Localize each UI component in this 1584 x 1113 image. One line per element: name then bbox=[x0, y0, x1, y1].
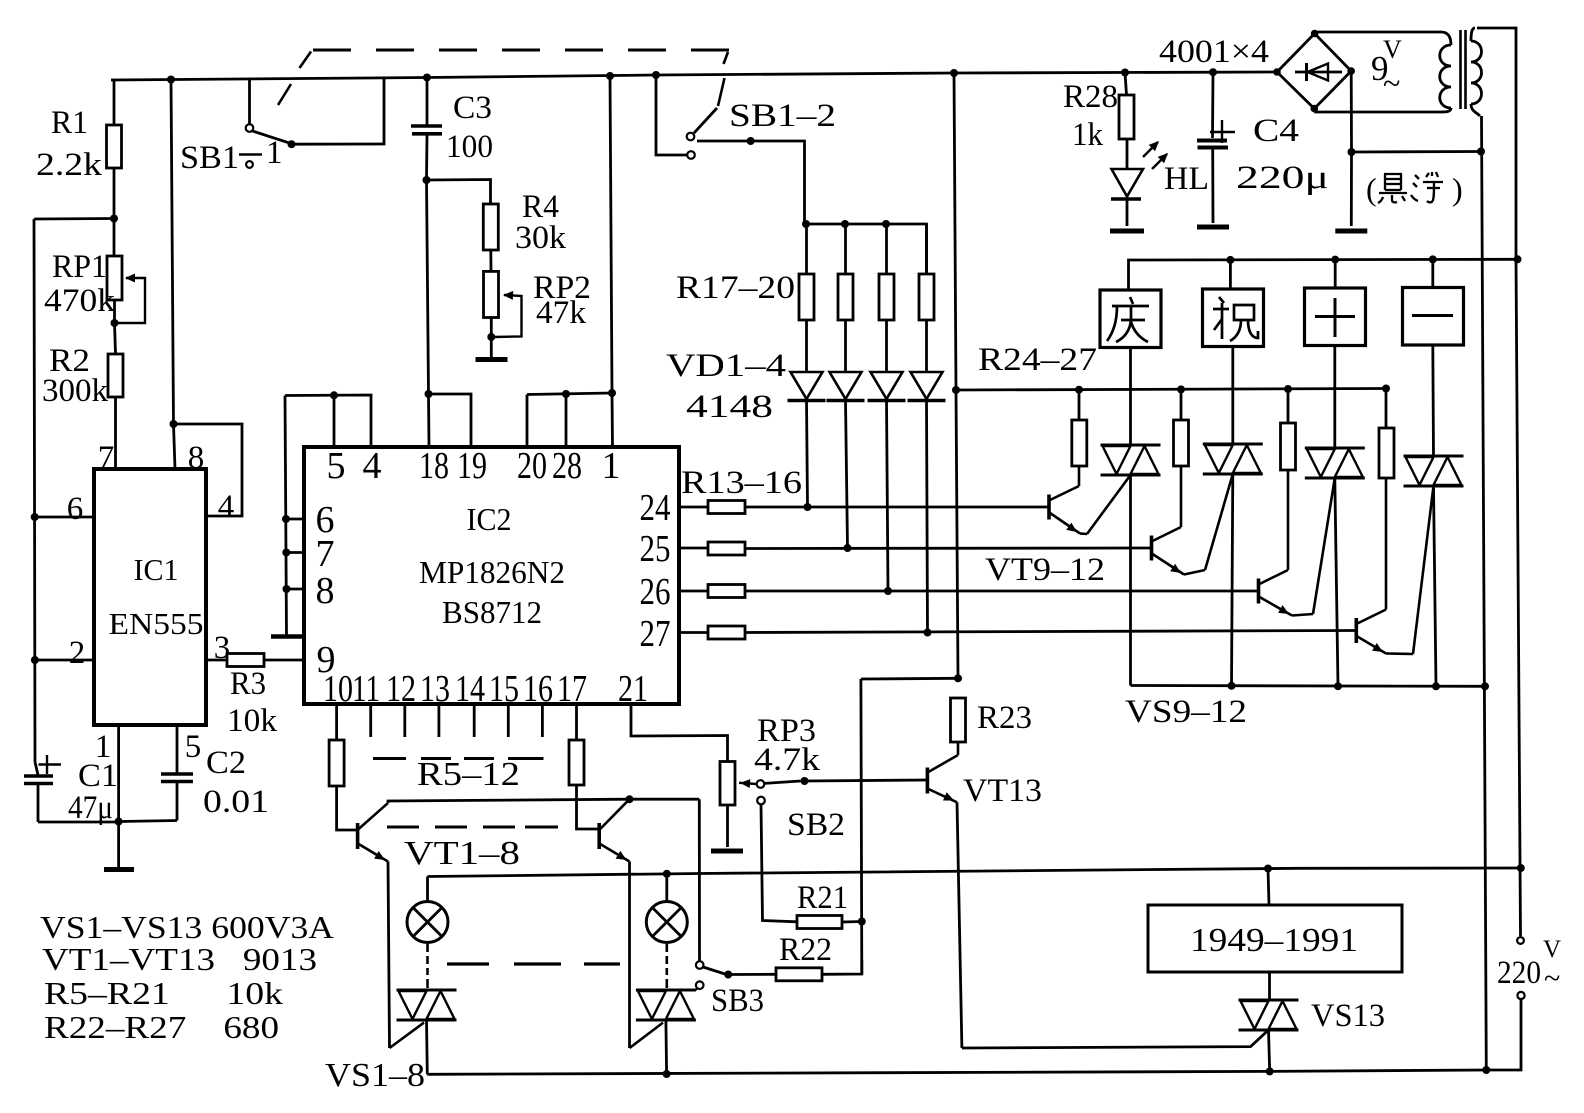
node rail-shi bbox=[1331, 256, 1339, 264]
resistor R27 bbox=[1385, 389, 1388, 429]
resistor R2 bbox=[108, 354, 123, 397]
svg-text:24: 24 bbox=[640, 487, 671, 529]
svg-text:16: 16 bbox=[523, 668, 553, 710]
gate diagonal of VS11 bbox=[1313, 478, 1335, 614]
node rail-VS11 bbox=[1334, 682, 1342, 690]
wire SB1-2 output bbox=[697, 141, 805, 224]
wire VT12 emitter to gate bbox=[1386, 652, 1413, 655]
node pin28 tee bbox=[562, 390, 570, 398]
wiper of RP2 bbox=[493, 295, 522, 337]
capacitor C2 bbox=[176, 725, 179, 773]
wire SB2 lower to R21 bbox=[761, 804, 797, 921]
switch SB1-2 bbox=[656, 75, 687, 155]
gate diagonal of VS9 bbox=[1087, 475, 1131, 534]
node rail-VS12 bbox=[1432, 682, 1440, 690]
switch SB3 bbox=[698, 799, 701, 961]
svg-text:220: 220 bbox=[1497, 955, 1541, 991]
resistor R24 bbox=[1078, 390, 1081, 420]
resistor R14 bbox=[708, 542, 745, 555]
node rail-yi bbox=[1429, 255, 1437, 263]
wire pin25 line bbox=[679, 547, 708, 550]
node lamp2 tap bbox=[663, 870, 671, 878]
linkage dashes SB1 bbox=[278, 84, 291, 105]
transistor VT11 bbox=[1257, 579, 1261, 604]
gate diagonal of VS10 bbox=[1205, 474, 1233, 570]
svg-text:R5–12: R5–12 bbox=[417, 756, 520, 793]
wire mains right vertical bbox=[1516, 259, 1521, 936]
triac VS13 bbox=[1239, 999, 1299, 1002]
wire VT collector rail bbox=[388, 799, 699, 803]
svg-text:20: 20 bbox=[517, 445, 547, 487]
wire VD4 to pin27 line bbox=[927, 400, 928, 633]
svg-text:HL: HL bbox=[1164, 161, 1209, 197]
LED arrows bbox=[1143, 142, 1158, 157]
node bus-Vplus bbox=[950, 69, 958, 77]
resistor R13 bbox=[708, 501, 745, 514]
wire pin24 line bbox=[679, 506, 708, 509]
wire IC1 pin2 stub bbox=[35, 659, 94, 662]
svg-text:MP1826N2: MP1826N2 bbox=[419, 554, 565, 590]
node rail-pin6 bbox=[31, 513, 39, 521]
node rail-R25 bbox=[1177, 385, 1185, 393]
wire neutral vertical bbox=[1482, 116, 1487, 1070]
ground below RP3 bbox=[726, 805, 729, 847]
svg-text:4.7k: 4.7k bbox=[754, 742, 821, 778]
svg-text:SB3: SB3 bbox=[711, 983, 764, 1019]
wire IC2 pin21 to RP3 bbox=[631, 704, 728, 762]
svg-text:~: ~ bbox=[1383, 65, 1400, 101]
triac VS8 bbox=[636, 989, 696, 992]
resistor R5 bbox=[329, 740, 344, 786]
triac VS10 bbox=[1203, 443, 1263, 446]
node rail-pin7 IC2 bbox=[282, 549, 290, 557]
terminal 220V upper bbox=[1517, 937, 1524, 944]
resistor R3 bbox=[206, 659, 227, 662]
svg-text:26: 26 bbox=[640, 571, 671, 613]
polarity plus of C1 bbox=[39, 763, 62, 765]
ground below C4 bbox=[1197, 225, 1229, 230]
wire pin17 stub bbox=[575, 704, 578, 740]
dashes between lamp units bbox=[447, 962, 489, 965]
wire rail to pins 6 7 8 bbox=[285, 396, 287, 637]
ground below IC1 bbox=[117, 822, 120, 868]
potentiometer RP2 bbox=[484, 271, 499, 317]
wire IC2 bottom pin stub bbox=[369, 704, 372, 737]
wire lamp2 feed bbox=[665, 874, 668, 901]
svg-text:R23: R23 bbox=[977, 700, 1032, 736]
wire VD2 to pin25 line bbox=[846, 400, 848, 548]
node rail-pin2 bbox=[31, 656, 39, 664]
svg-text:R22: R22 bbox=[779, 932, 832, 968]
capacitor C4 bbox=[1211, 72, 1214, 138]
node bus-C4 bbox=[1209, 68, 1217, 76]
wiper of RP1 bbox=[116, 278, 145, 323]
ground below HL bbox=[1110, 229, 1144, 234]
svg-text:5: 5 bbox=[327, 445, 346, 487]
svg-text:10: 10 bbox=[323, 668, 353, 710]
ground bar at IC2 rail bbox=[271, 634, 304, 639]
resistor R21 bbox=[797, 916, 842, 929]
svg-text:IC2: IC2 bbox=[467, 501, 512, 537]
wire left rail bbox=[34, 219, 35, 762]
resistor R12 bbox=[569, 740, 584, 785]
switch SB2 bbox=[757, 780, 765, 788]
svg-text:R28: R28 bbox=[1063, 79, 1118, 115]
svg-text:1949–1991: 1949–1991 bbox=[1190, 922, 1358, 959]
triac VS1 bbox=[397, 989, 457, 992]
node R1-RP1 junction bbox=[110, 215, 118, 223]
capacitor C1 bbox=[35, 762, 38, 775]
node bus-R28 bbox=[1121, 69, 1129, 77]
node VT8 collector bbox=[626, 795, 634, 803]
svg-text:18: 18 bbox=[419, 445, 449, 487]
node pin1 tee bbox=[608, 389, 616, 397]
transistor VT9 bbox=[1047, 495, 1051, 520]
resistor R4 bbox=[427, 180, 491, 205]
wire pin20-28-1 link bbox=[527, 393, 612, 395]
node bus-SB1-2 bbox=[652, 71, 660, 79]
svg-text:R3: R3 bbox=[230, 666, 266, 702]
node R23 top bbox=[954, 674, 962, 682]
node VD1-line24 bbox=[804, 503, 812, 511]
resistor R17 bbox=[805, 224, 808, 274]
dashes R6-R11 bbox=[373, 757, 406, 760]
transformer secondary winding 9V bbox=[1441, 32, 1451, 45]
node rail-R19 bbox=[882, 220, 890, 228]
svg-text:R21: R21 bbox=[797, 880, 848, 916]
dashes VT2-VT7 bbox=[387, 826, 419, 829]
node bus-IC2pin1 bbox=[606, 72, 614, 80]
wire VS12 to bottom rail bbox=[1434, 486, 1437, 686]
svg-text:R13–16: R13–16 bbox=[681, 465, 802, 501]
svg-text:(: ( bbox=[1366, 171, 1377, 207]
node mains-lamp rail bbox=[1517, 864, 1525, 872]
wire top supply bus bbox=[111, 72, 1277, 80]
svg-text:VT1–VT13 9013: VT1–VT13 9013 bbox=[42, 941, 317, 977]
svg-text:21: 21 bbox=[618, 668, 648, 710]
op-amp U IC1 EN555 timer bbox=[94, 469, 206, 725]
svg-text:EN555: EN555 bbox=[109, 606, 204, 641]
node bus-C3 bbox=[423, 74, 431, 82]
svg-text:R22–R27 680: R22–R27 680 bbox=[44, 1009, 279, 1045]
svg-text:4001×4: 4001×4 bbox=[1159, 34, 1269, 70]
resistor R18 bbox=[844, 224, 847, 274]
svg-text:100: 100 bbox=[446, 129, 493, 165]
wire lamp box supply rail bbox=[1129, 259, 1518, 290]
wire zhu box top bbox=[1229, 260, 1232, 289]
svg-text:12: 12 bbox=[386, 668, 416, 710]
node C3-R4 junction bbox=[423, 176, 431, 184]
wire IC1 pin6 stub bbox=[35, 516, 94, 519]
wire VT9 emitter to gate bbox=[1080, 532, 1087, 535]
svg-text:VT13: VT13 bbox=[963, 773, 1042, 809]
wire pin5-4 link bbox=[285, 395, 371, 447]
svg-text:): ) bbox=[1452, 171, 1463, 207]
wire pin26 line bbox=[679, 590, 708, 593]
node bridge bottom bbox=[1311, 105, 1319, 113]
wiper of RP3 bbox=[739, 783, 757, 784]
svg-text:14: 14 bbox=[455, 668, 485, 710]
svg-text:2: 2 bbox=[69, 635, 86, 671]
wire 1949 box feed bbox=[1268, 869, 1269, 906]
wire VD3 to pin26 line bbox=[887, 400, 889, 591]
node mains-1949 box bbox=[1264, 865, 1272, 873]
svg-text:30k: 30k bbox=[515, 220, 567, 256]
node rail-R24 bbox=[1075, 386, 1083, 394]
bridge rectifier 4001x4 bbox=[1277, 34, 1351, 109]
wire qing box to VS9 bbox=[1129, 348, 1132, 446]
potentiometer RP1 bbox=[113, 218, 116, 256]
lamp box 1949-1991 bbox=[1148, 905, 1402, 972]
resistor R19 bbox=[885, 224, 888, 274]
transformer primary winding bbox=[1471, 28, 1475, 41]
node VS8-rail bbox=[663, 1070, 671, 1078]
resistor R20 bbox=[925, 224, 928, 274]
svg-text:4: 4 bbox=[363, 445, 382, 487]
lamp box SHI bbox=[1305, 288, 1366, 346]
svg-text:RP1: RP1 bbox=[52, 249, 107, 285]
svg-text:VS9–12: VS9–12 bbox=[1125, 694, 1247, 730]
svg-text:4148: 4148 bbox=[686, 389, 773, 425]
wire shi box top bbox=[1334, 260, 1337, 288]
wire VT13 emitter down bbox=[957, 802, 962, 1048]
svg-text:SB2: SB2 bbox=[787, 807, 845, 843]
resistor R16 bbox=[708, 626, 745, 639]
svg-text:C1: C1 bbox=[78, 758, 118, 794]
node bus-R1 bbox=[167, 76, 175, 84]
wire yi box top bbox=[1431, 259, 1434, 287]
diode VD4 bbox=[911, 372, 943, 399]
wire R17-20 rail bbox=[805, 224, 927, 274]
wire C3 to IC2 pin18 bbox=[427, 180, 429, 394]
wire yi box to VS12 bbox=[1431, 345, 1434, 456]
dash-dot lamp8 to VS8 bbox=[665, 944, 668, 952]
capacitor C3 bbox=[426, 78, 429, 125]
svg-text:47k: 47k bbox=[536, 295, 587, 331]
resistor R23 bbox=[951, 698, 966, 742]
gate diagonal of VS1 bbox=[390, 1023, 425, 1048]
node rail-pin6 IC2 bbox=[282, 515, 290, 523]
wire VS1-8 common rail bbox=[427, 1070, 1486, 1074]
node VD3-line26 bbox=[884, 587, 892, 595]
svg-text:VT1–8: VT1–8 bbox=[404, 835, 520, 872]
node pin18 tee bbox=[425, 390, 433, 398]
triac VS9 bbox=[1101, 444, 1161, 447]
svg-text:28: 28 bbox=[552, 445, 582, 487]
LED HL bbox=[1112, 169, 1144, 197]
wire VS10 to bottom rail bbox=[1232, 474, 1233, 686]
svg-text:4: 4 bbox=[218, 489, 235, 525]
wire SB3 to R22 bbox=[728, 973, 776, 976]
wire IC1 pin1 down bbox=[117, 725, 120, 822]
wire pin10 stub bbox=[335, 704, 338, 740]
wire pin18-pin19 link bbox=[429, 394, 472, 447]
diode VD1 bbox=[791, 372, 823, 399]
svg-text:5: 5 bbox=[185, 729, 202, 765]
svg-text:V: V bbox=[1543, 936, 1561, 963]
wire VS13 gate run bbox=[962, 1031, 1267, 1048]
node rail-neutral bbox=[1481, 682, 1489, 690]
svg-text:11: 11 bbox=[352, 668, 380, 710]
diode inside bridge bbox=[1295, 71, 1342, 74]
svg-text:6: 6 bbox=[67, 491, 84, 527]
svg-text:1: 1 bbox=[266, 135, 283, 171]
ground at AC2 bbox=[1350, 152, 1353, 226]
wire SB2 to VT13 base bbox=[805, 780, 928, 781]
svg-text:SB1–2: SB1–2 bbox=[729, 98, 836, 134]
gate diagonal of VS8 bbox=[630, 1023, 664, 1048]
wire VD1 to pin24 line bbox=[807, 400, 808, 507]
resistor R25 bbox=[1180, 389, 1183, 420]
diode VD2 bbox=[830, 372, 862, 399]
node VS13-rail bbox=[1266, 1067, 1274, 1075]
svg-text:8: 8 bbox=[316, 570, 335, 612]
node bridge right bbox=[1347, 67, 1355, 75]
svg-text:~: ~ bbox=[1544, 962, 1560, 995]
transistor VT1 bbox=[356, 823, 360, 849]
node rail-R18 bbox=[841, 220, 849, 228]
node rail-VS10 bbox=[1228, 682, 1236, 690]
node rail-R27 bbox=[1382, 385, 1390, 393]
wire bridge AC2 down bbox=[1350, 71, 1353, 152]
lamp EL8 bbox=[646, 902, 687, 943]
wire R24-27 supply rail bbox=[956, 389, 1386, 391]
wire IC2 bottom pin stub bbox=[437, 704, 440, 737]
node pin8 tee bbox=[170, 420, 178, 428]
svg-text:7: 7 bbox=[316, 533, 335, 575]
svg-text:C4: C4 bbox=[1253, 113, 1299, 149]
node rail-pin8 IC2 bbox=[283, 585, 291, 593]
wire +V rail down bbox=[954, 73, 956, 390]
node +V to R24-27 rail bbox=[952, 386, 960, 394]
svg-text:27: 27 bbox=[640, 613, 671, 655]
wire left rail tee bbox=[34, 217, 114, 220]
svg-text:V: V bbox=[1383, 35, 1402, 64]
node rail-mains bbox=[1514, 255, 1522, 263]
wire AC2 to primary bottom bbox=[1352, 150, 1482, 153]
resistor R26 bbox=[1287, 389, 1290, 423]
wire VT1 emitter down bbox=[388, 862, 390, 1049]
svg-text:R24–27: R24–27 bbox=[978, 342, 1097, 378]
svg-text:10k: 10k bbox=[227, 703, 278, 739]
svg-text:8: 8 bbox=[188, 440, 205, 476]
node rail-R17 bbox=[802, 220, 810, 228]
node SB2 blade bbox=[801, 777, 809, 785]
switch SB1-1 bbox=[248, 79, 251, 124]
node C1-C2-pin1 junction bbox=[115, 818, 123, 826]
resistor R22 bbox=[776, 968, 822, 981]
node bridge left bbox=[1273, 68, 1281, 76]
wire pin27 line bbox=[679, 631, 708, 634]
triac VS11 bbox=[1305, 447, 1365, 450]
ground below RP2 bbox=[490, 337, 493, 357]
node RP1-R2 junction bbox=[111, 319, 119, 327]
svg-text:13: 13 bbox=[420, 668, 450, 710]
diode VD3 bbox=[871, 372, 903, 399]
wire lamp1 feed bbox=[426, 877, 429, 902]
node SB1-1 output bbox=[288, 140, 296, 148]
wire shi box to VS11 bbox=[1333, 346, 1336, 449]
node rail-zhu bbox=[1226, 256, 1234, 264]
transformer core bbox=[1459, 30, 1462, 109]
svg-text:R5–R21 10k: R5–R21 10k bbox=[44, 975, 283, 1011]
wire box to VS13 bbox=[1268, 972, 1271, 1000]
wire bridge bottom to secondary bbox=[1313, 109, 1316, 112]
wire IC2 bottom pin stub bbox=[473, 704, 476, 737]
node VD4-line27 bbox=[924, 629, 932, 637]
wire VT11 emitter to gate bbox=[1292, 614, 1313, 616]
wire VT10 emitter to gate bbox=[1184, 570, 1205, 575]
svg-text:C3: C3 bbox=[453, 90, 492, 126]
node primary bottom tee bbox=[1477, 148, 1485, 156]
svg-text:VS13: VS13 bbox=[1311, 998, 1385, 1034]
lamp box ZHU bbox=[1203, 289, 1264, 347]
transistor VT12 bbox=[1355, 618, 1359, 643]
svg-text:25: 25 bbox=[640, 528, 671, 570]
wire bus to IC2 pin1 bbox=[610, 76, 612, 393]
wire VS11 to bottom rail bbox=[1335, 478, 1338, 686]
node SB3 blade bbox=[724, 971, 732, 979]
wire VT8 emitter down bbox=[628, 862, 631, 1049]
IC U2 IC2 MP1826N2 BS8712 bbox=[304, 447, 679, 704]
polarity plus of C4 bbox=[1210, 131, 1235, 133]
wire IC2 bottom pin stub bbox=[507, 704, 510, 737]
node neutral-rail bbox=[1482, 1066, 1490, 1074]
svg-text:VT9–12: VT9–12 bbox=[985, 552, 1105, 588]
node pin5 tee bbox=[330, 391, 338, 399]
svg-text:47μ: 47μ bbox=[68, 790, 113, 826]
wire IC2 bottom pin stub bbox=[541, 704, 544, 737]
wire IC2 bottom pin stub bbox=[403, 704, 406, 737]
wire divider chain vertical bbox=[860, 679, 864, 974]
node R21-chain bbox=[858, 918, 866, 926]
svg-text:C2: C2 bbox=[206, 745, 246, 781]
svg-text:0.01: 0.01 bbox=[203, 784, 269, 820]
wire 220V lower to bottom rail bbox=[1486, 1000, 1521, 1071]
svg-text:19: 19 bbox=[457, 445, 487, 487]
triac VS12 bbox=[1404, 455, 1464, 458]
svg-text:1k: 1k bbox=[1072, 117, 1103, 153]
wire Vcc to IC1 pin8 and pin4 bbox=[171, 80, 174, 425]
wire zhu box to VS10 bbox=[1231, 347, 1234, 445]
wire +V down to R23 bbox=[956, 390, 958, 678]
svg-text:300k: 300k bbox=[42, 373, 109, 409]
svg-text:1: 1 bbox=[602, 445, 621, 487]
node AC2 tee bbox=[1348, 148, 1356, 156]
transistor VT8 bbox=[597, 823, 601, 849]
svg-text:R17–20: R17–20 bbox=[676, 270, 795, 306]
lamp box YI bbox=[1403, 288, 1464, 346]
svg-text:220μ: 220μ bbox=[1236, 160, 1329, 196]
gate diagonal of VS12 bbox=[1413, 486, 1434, 654]
node RP2 bottom junction bbox=[487, 333, 495, 341]
node rail-R26 bbox=[1284, 385, 1292, 393]
svg-text:SB1: SB1 bbox=[180, 140, 239, 176]
svg-text:7: 7 bbox=[98, 440, 115, 476]
svg-text:BS8712: BS8712 bbox=[442, 594, 542, 630]
svg-text:2.2k: 2.2k bbox=[36, 147, 103, 183]
svg-text:VS1–VS13 600V3A: VS1–VS13 600V3A bbox=[40, 909, 334, 945]
resistor R28 bbox=[1125, 73, 1127, 96]
svg-text:VS1–8: VS1–8 bbox=[325, 1057, 425, 1094]
lamp EL1 bbox=[407, 902, 448, 943]
node bridge top bbox=[1311, 30, 1319, 38]
svg-text:R1: R1 bbox=[51, 105, 88, 141]
wire bridge top to secondary bbox=[1313, 32, 1316, 34]
terminal 220V lower bbox=[1517, 992, 1524, 999]
wire lamp supply rail bbox=[428, 868, 1521, 877]
svg-text:17: 17 bbox=[557, 668, 587, 710]
